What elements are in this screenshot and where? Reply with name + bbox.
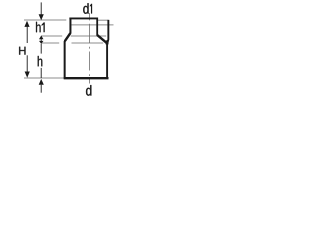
h bottom arrow tail bbox=[40, 85, 42, 93]
d label bbox=[86, 85, 91, 96]
insertion depth line h1 (interior segment) bbox=[71, 35, 106, 37]
h dimension upper stem bbox=[40, 44, 42, 54]
h bottom outside arrow up bbox=[39, 79, 44, 85]
fitting outline: left shoulder taper emphasis bbox=[65, 33, 70, 41]
H dimension arrow down bbox=[25, 72, 30, 78]
background bbox=[0, 0, 136, 102]
h dimension lower stem bbox=[40, 68, 42, 78]
fitting outline: right interior taper bbox=[97, 35, 108, 44]
d1 label bbox=[83, 3, 88, 14]
h upper outside arrow down bbox=[39, 41, 44, 44]
insertion depth line h1 (left segment) bbox=[41, 35, 62, 37]
h1 lower outside arrow up bbox=[39, 36, 44, 40]
extension line top-left (socket top level) bbox=[24, 19, 66, 21]
H label bbox=[19, 47, 25, 55]
h1 dimension top stem bbox=[40, 2, 42, 14]
fitting outline: top edge bbox=[69, 17, 97, 19]
H dimension arrow up bbox=[24, 21, 29, 27]
socket stop depth line bbox=[72, 24, 114, 26]
bore transition line h (left segment) bbox=[41, 42, 59, 44]
fitting outline: right flare junction fill bbox=[105, 39, 108, 44]
fitting outline: bottom edge bbox=[64, 77, 109, 79]
h label bbox=[38, 56, 43, 66]
centerline bbox=[89, 13, 91, 84]
H dimension line lower stem bbox=[26, 55, 28, 72]
bore transition line h (interior segment) bbox=[72, 42, 104, 44]
extension line top-right (socket top level) bbox=[98, 19, 109, 21]
extension line bottom-left (pipe end level) bbox=[24, 77, 64, 79]
stem between h1 and h arrows bbox=[40, 39, 42, 41]
h1 dimension arrow down bbox=[39, 14, 44, 20]
fitting outline: right outer wall bbox=[107, 20, 108, 79]
h1 label bbox=[36, 22, 41, 32]
H dimension line upper stem bbox=[26, 27, 28, 43]
fitting outline: socket right wall bbox=[96, 18, 98, 36]
fitting outline: left profile (socket wall, shoulder taper, lower wall) bbox=[65, 17, 71, 78]
